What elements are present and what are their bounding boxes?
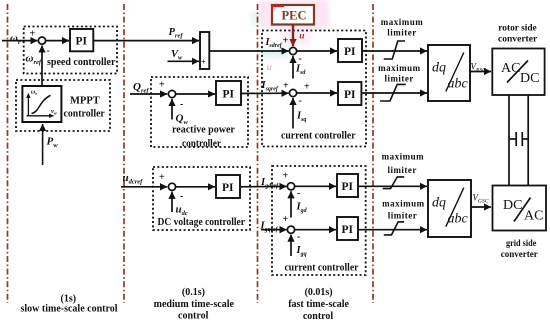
svg-text:Pw: Pw — [47, 136, 59, 150]
svg-text:Igdref: Igdref — [260, 177, 279, 190]
svg-text:VGSC: VGSC — [473, 193, 489, 205]
svg-text:grid side: grid side — [506, 239, 536, 249]
svg-text:controller: controller — [64, 109, 106, 120]
svg-text:PEC: PEC — [282, 9, 307, 23]
svg-text:converter: converter — [498, 35, 538, 45]
svg-text:PI: PI — [223, 89, 235, 101]
svg-text:PI: PI — [344, 46, 356, 58]
svg-text:speed controller: speed controller — [47, 57, 116, 68]
svg-text:-: - — [47, 46, 50, 57]
svg-text:Isq: Isq — [296, 111, 306, 124]
svg-text:medium time-scale: medium time-scale — [154, 299, 235, 310]
svg-text:-: - — [299, 96, 302, 107]
svg-text:limiter: limiter — [387, 165, 417, 175]
svg-text:-: - — [180, 191, 183, 202]
svg-text:current controller: current controller — [281, 130, 356, 141]
svg-text:maximum: maximum — [382, 199, 425, 209]
svg-text:+: + — [283, 214, 289, 225]
svg-text:control: control — [178, 311, 209, 322]
svg-text:PI: PI — [342, 224, 354, 236]
svg-text:AC: AC — [524, 209, 543, 224]
svg-text:-: - — [297, 188, 300, 199]
svg-text:ωref: ωref — [26, 53, 42, 67]
svg-text:reactive power: reactive power — [172, 125, 235, 136]
svg-text:Isdref: Isdref — [265, 37, 283, 49]
svg-text:+: + — [201, 57, 206, 67]
svg-text:udc: udc — [176, 204, 188, 218]
svg-text:Vw: Vw — [171, 49, 183, 62]
svg-text:-: - — [180, 99, 183, 110]
svg-text:+: + — [159, 80, 165, 91]
svg-text:rotor side: rotor side — [498, 24, 536, 34]
svg-text:+: + — [304, 82, 310, 93]
svg-text:DC: DC — [520, 71, 539, 86]
svg-text:u: u — [267, 63, 272, 73]
svg-text:converter: converter — [501, 250, 539, 260]
svg-text:+: + — [30, 29, 36, 40]
svg-text:+: + — [159, 172, 165, 183]
svg-text:ωr: ωr — [10, 33, 21, 47]
svg-text:limiter: limiter — [388, 211, 418, 221]
svg-text:PI: PI — [76, 36, 88, 48]
svg-text:u: u — [299, 32, 304, 42]
svg-text:abc: abc — [448, 77, 469, 92]
svg-text:control: control — [303, 311, 334, 322]
svg-text:udcref: udcref — [123, 172, 144, 186]
svg-text:current controller: current controller — [285, 263, 359, 274]
svg-text:limiter: limiter — [387, 28, 417, 38]
svg-text:maximum: maximum — [382, 152, 425, 162]
svg-text:Igd: Igd — [296, 202, 308, 215]
svg-text:dq: dq — [432, 196, 446, 211]
svg-text:maximum: maximum — [378, 63, 421, 73]
svg-text:MPPT: MPPT — [70, 96, 100, 107]
svg-text:Igqref: Igqref — [260, 221, 279, 234]
svg-text:slow time-scale control: slow time-scale control — [20, 304, 117, 315]
svg-text:AC: AC — [501, 61, 520, 76]
svg-text:Isd: Isd — [295, 64, 306, 77]
svg-text:limiter: limiter — [384, 74, 414, 84]
svg-text:+: + — [283, 171, 289, 182]
svg-text:maximum: maximum — [381, 17, 424, 27]
svg-text:+: + — [283, 36, 289, 47]
svg-text:controller: controller — [182, 139, 222, 150]
svg-text:DC: DC — [503, 198, 522, 213]
svg-text:(0.1s): (0.1s) — [182, 287, 205, 298]
svg-text:PI: PI — [342, 181, 354, 193]
svg-text:PI: PI — [222, 182, 234, 194]
svg-text:dq: dq — [432, 61, 446, 76]
svg-text:Isqref: Isqref — [261, 80, 279, 93]
svg-text:(0.01s): (0.01s) — [305, 287, 333, 298]
svg-text:Pref: Pref — [169, 27, 184, 40]
svg-text:+: + — [283, 81, 289, 92]
svg-text:PI: PI — [344, 89, 356, 101]
svg-text:Qref: Qref — [133, 81, 149, 95]
svg-text:abc: abc — [448, 211, 469, 226]
svg-text:fast time-scale: fast time-scale — [288, 299, 349, 310]
svg-text:Igq: Igq — [296, 245, 307, 258]
svg-text:-: - — [297, 232, 300, 243]
svg-text:DC voltage controller: DC voltage controller — [158, 217, 246, 228]
